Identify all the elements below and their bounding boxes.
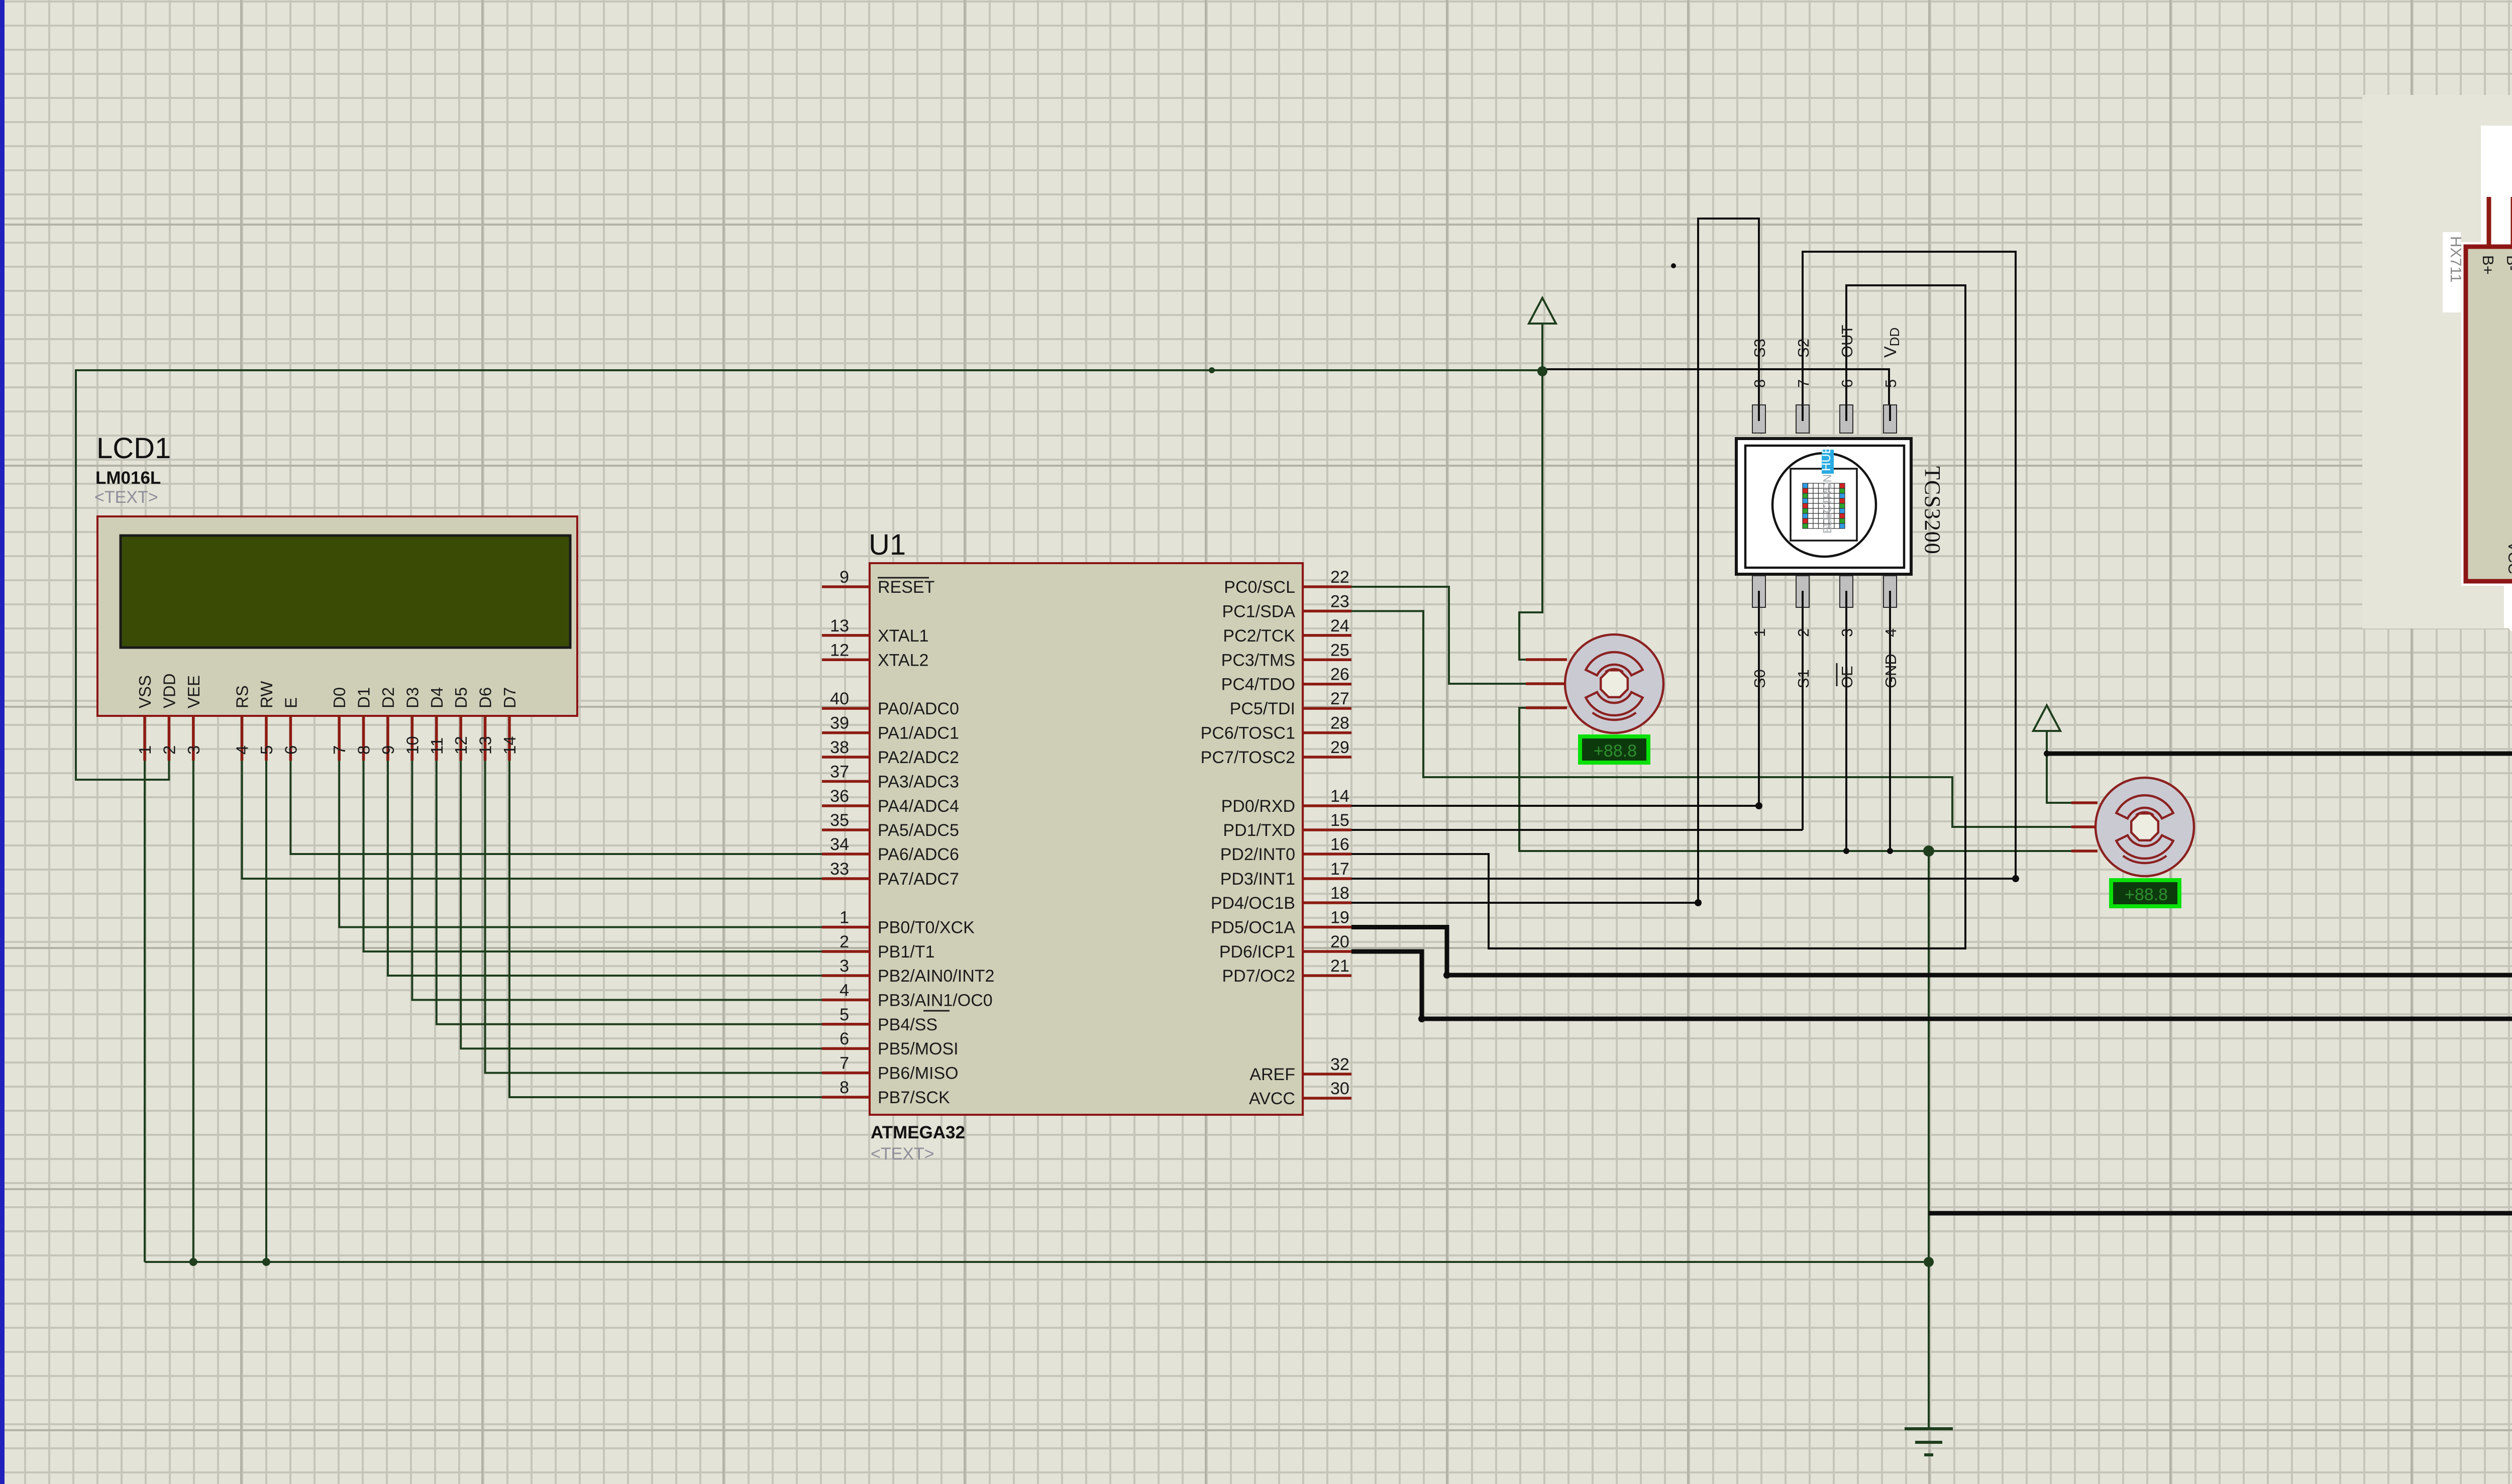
- svg-text:12: 12: [452, 736, 470, 755]
- svg-text:32: 32: [1330, 1055, 1349, 1074]
- svg-text:7: 7: [840, 1054, 849, 1073]
- svg-text:PA3/ADC3: PA3/ADC3: [878, 772, 959, 791]
- svg-text:D4: D4: [428, 687, 446, 708]
- svg-text:38: 38: [830, 738, 849, 757]
- svg-text:PB3/AIN1/OC0: PB3/AIN1/OC0: [878, 991, 993, 1010]
- svg-text:PA2/ADC2: PA2/ADC2: [878, 748, 959, 767]
- svg-text:2: 2: [840, 932, 849, 951]
- svg-text:+88.8: +88.8: [2125, 885, 2168, 904]
- svg-text:VCC: VCC: [2505, 542, 2512, 574]
- svg-text:20: 20: [1330, 932, 1349, 951]
- svg-text:18: 18: [1330, 884, 1349, 903]
- svg-text:PD0/RXD: PD0/RXD: [1221, 797, 1295, 816]
- svg-text:5: 5: [840, 1005, 849, 1024]
- svg-text:10: 10: [403, 736, 422, 755]
- svg-text:8: 8: [355, 746, 373, 755]
- svg-text:D7: D7: [500, 687, 519, 708]
- svg-text:35: 35: [830, 811, 849, 830]
- svg-text:40: 40: [830, 689, 849, 708]
- svg-text:PD5/OC1A: PD5/OC1A: [1211, 918, 1295, 937]
- svg-text:36: 36: [830, 787, 849, 806]
- svg-text:PA6/ADC6: PA6/ADC6: [878, 845, 959, 864]
- svg-text:5: 5: [1882, 379, 1900, 388]
- svg-text:28: 28: [1330, 714, 1349, 733]
- svg-text:13: 13: [476, 736, 495, 755]
- svg-text:PA7/ADC7: PA7/ADC7: [878, 870, 959, 889]
- svg-text:PD2/INT0: PD2/INT0: [1220, 845, 1295, 864]
- svg-text:6: 6: [1838, 379, 1856, 388]
- svg-text:8: 8: [1751, 379, 1768, 388]
- svg-text:3: 3: [1838, 628, 1856, 637]
- svg-text:PA0/ADC0: PA0/ADC0: [878, 699, 959, 718]
- svg-text:24: 24: [1330, 616, 1349, 635]
- svg-text:6: 6: [281, 746, 300, 755]
- svg-text:2: 2: [1795, 628, 1812, 637]
- svg-text:PD1/TXD: PD1/TXD: [1223, 821, 1295, 840]
- svg-text:PD4/OC1B: PD4/OC1B: [1211, 894, 1295, 913]
- svg-text:14: 14: [500, 736, 519, 755]
- svg-text:PA5/ADC5: PA5/ADC5: [878, 821, 959, 840]
- svg-text:6: 6: [840, 1029, 849, 1048]
- svg-text:VDD: VDD: [160, 673, 178, 708]
- svg-text:E: E: [281, 697, 300, 708]
- svg-text:PA1/ADC1: PA1/ADC1: [878, 724, 959, 743]
- svg-text:PB7/SCK: PB7/SCK: [878, 1088, 950, 1107]
- svg-text:OUT: OUT: [1838, 325, 1856, 358]
- svg-text:RS: RS: [233, 685, 252, 708]
- svg-text:PD7/OC2: PD7/OC2: [1222, 967, 1296, 986]
- svg-text:8: 8: [840, 1078, 849, 1097]
- svg-text:37: 37: [830, 762, 849, 781]
- svg-text:PB4/SS: PB4/SS: [878, 1015, 937, 1034]
- svg-text:PC3/TMS: PC3/TMS: [1221, 651, 1295, 670]
- svg-text:D3: D3: [403, 687, 422, 708]
- svg-text:GND: GND: [1882, 654, 1900, 688]
- svg-text:4: 4: [233, 746, 252, 755]
- svg-text:PC0/SCL: PC0/SCL: [1224, 578, 1295, 597]
- svg-text:11: 11: [428, 737, 446, 755]
- svg-text:<TEXT>: <TEXT>: [871, 1144, 934, 1163]
- svg-text:PA4/ADC4: PA4/ADC4: [878, 797, 959, 816]
- svg-text:5: 5: [257, 746, 276, 755]
- svg-text:D0: D0: [330, 687, 349, 708]
- svg-text:HX711: HX711: [2447, 236, 2465, 283]
- svg-text:21: 21: [1330, 957, 1349, 976]
- svg-text:17: 17: [1330, 860, 1349, 879]
- svg-text:VEE: VEE: [184, 675, 203, 708]
- svg-text:33: 33: [830, 860, 849, 879]
- svg-text:PC5/TDI: PC5/TDI: [1230, 699, 1295, 718]
- svg-text:B-: B-: [2503, 255, 2512, 271]
- svg-text:PC7/TOSC2: PC7/TOSC2: [1201, 748, 1295, 767]
- svg-text:U1: U1: [869, 528, 906, 561]
- svg-text:LM016L: LM016L: [95, 468, 161, 488]
- svg-text:PB0/T0/XCK: PB0/T0/XCK: [878, 918, 975, 937]
- svg-text:1: 1: [840, 908, 849, 927]
- svg-text:39: 39: [830, 714, 849, 733]
- svg-text:RW: RW: [257, 681, 276, 708]
- svg-text:PB1/T1: PB1/T1: [878, 942, 934, 962]
- svg-text:PD3/INT1: PD3/INT1: [1220, 870, 1295, 889]
- svg-text:1: 1: [136, 746, 154, 755]
- svg-text:23: 23: [1330, 592, 1349, 611]
- svg-text:B+: B+: [2479, 255, 2497, 275]
- svg-text:LCD1: LCD1: [96, 432, 171, 465]
- svg-text:2: 2: [160, 746, 178, 755]
- svg-text:D2: D2: [379, 687, 397, 708]
- svg-text:OE: OE: [1838, 666, 1856, 688]
- svg-text:7: 7: [1795, 379, 1812, 388]
- svg-text:14: 14: [1330, 787, 1349, 806]
- svg-text:34: 34: [830, 835, 849, 854]
- svg-text:<TEXT>: <TEXT>: [94, 488, 158, 507]
- svg-text:HUB: HUB: [1820, 446, 1833, 471]
- svg-text:4: 4: [840, 981, 849, 1000]
- svg-text:S0: S0: [1751, 669, 1768, 688]
- svg-text:PB5/MOSI: PB5/MOSI: [878, 1039, 959, 1058]
- svg-text:16: 16: [1330, 835, 1349, 854]
- svg-text:D1: D1: [355, 687, 373, 708]
- svg-text:RESET: RESET: [878, 578, 934, 597]
- svg-text:S3: S3: [1751, 339, 1768, 358]
- svg-text:D6: D6: [476, 687, 495, 708]
- svg-text:S2: S2: [1795, 339, 1812, 358]
- svg-text:PC6/TOSC1: PC6/TOSC1: [1201, 724, 1295, 743]
- svg-text:AREF: AREF: [1249, 1065, 1295, 1084]
- svg-text:15: 15: [1330, 811, 1349, 830]
- svg-text:VSS: VSS: [136, 675, 154, 708]
- svg-text:26: 26: [1330, 665, 1349, 684]
- svg-text:12: 12: [830, 641, 849, 660]
- svg-text:XTAL2: XTAL2: [878, 651, 928, 670]
- svg-text:ATMEGA32: ATMEGA32: [871, 1123, 965, 1142]
- svg-text:XTAL1: XTAL1: [878, 626, 928, 646]
- svg-text:3: 3: [184, 746, 203, 755]
- svg-text:1: 1: [1751, 628, 1768, 637]
- svg-text:9: 9: [379, 746, 397, 755]
- svg-text:PD6/ICP1: PD6/ICP1: [1219, 942, 1295, 962]
- svg-text:+88.8: +88.8: [1594, 741, 1637, 761]
- svg-text:30: 30: [1330, 1079, 1349, 1098]
- svg-text:D5: D5: [452, 687, 470, 708]
- svg-text:AVCC: AVCC: [1249, 1089, 1295, 1108]
- svg-text:25: 25: [1330, 641, 1349, 660]
- svg-text:3: 3: [840, 957, 849, 976]
- svg-text:9: 9: [840, 568, 849, 587]
- svg-text:19: 19: [1330, 908, 1349, 927]
- svg-text:S1: S1: [1795, 669, 1812, 688]
- svg-text:7: 7: [330, 746, 349, 755]
- svg-text:29: 29: [1330, 738, 1349, 757]
- svg-text:PC1/SDA: PC1/SDA: [1222, 602, 1296, 621]
- svg-text:PC2/TCK: PC2/TCK: [1223, 626, 1295, 646]
- svg-text:4: 4: [1882, 628, 1900, 637]
- svg-text:PC4/TDO: PC4/TDO: [1221, 675, 1295, 694]
- svg-text:PB2/AIN0/INT2: PB2/AIN0/INT2: [878, 967, 994, 986]
- svg-text:22: 22: [1330, 568, 1349, 587]
- svg-text:13: 13: [830, 616, 849, 635]
- svg-text:27: 27: [1330, 689, 1349, 708]
- svg-text:TCS3200: TCS3200: [1920, 466, 1945, 555]
- svg-text:PB6/MISO: PB6/MISO: [878, 1064, 959, 1083]
